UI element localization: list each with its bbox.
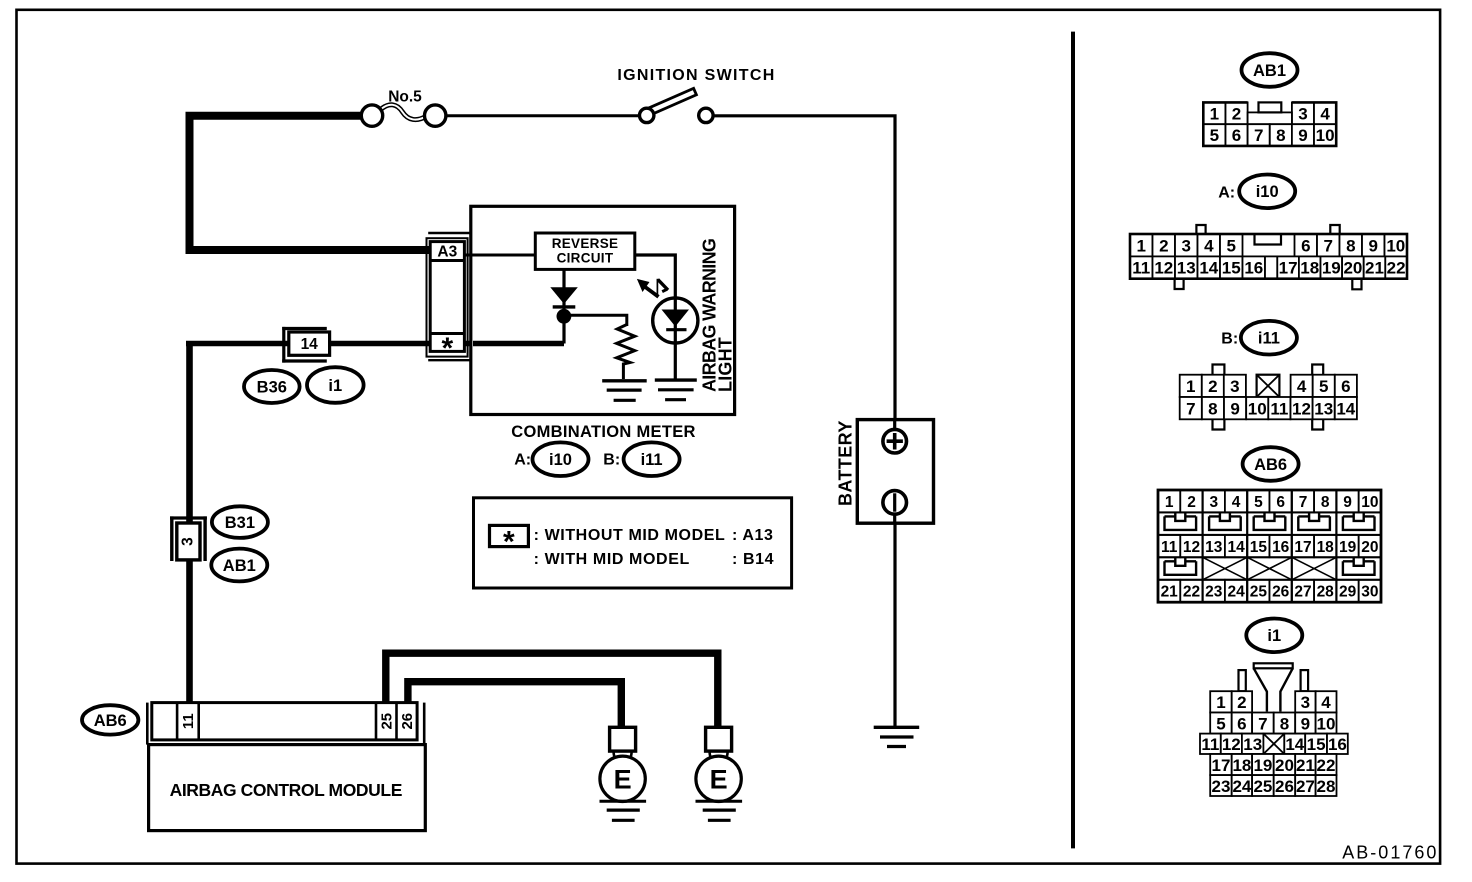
i10 keyway notch <box>1255 234 1282 245</box>
svg-text:17: 17 <box>1294 539 1311 556</box>
wire: module pin 25 to lamp 2 <box>386 653 718 728</box>
svg-text:14: 14 <box>301 336 319 353</box>
combination meter box <box>471 206 735 414</box>
pin 4 <box>1225 490 1247 512</box>
svg-text:11: 11 <box>1132 259 1150 278</box>
svg-text:7: 7 <box>1258 714 1267 733</box>
svg-text:8: 8 <box>1280 714 1289 733</box>
svg-text:6: 6 <box>1301 236 1310 255</box>
i1 keyway funnel <box>1254 663 1293 668</box>
svg-text:3: 3 <box>1181 236 1190 255</box>
svg-text:18: 18 <box>1300 259 1319 278</box>
svg-text:9: 9 <box>1298 126 1307 145</box>
svg-text:16: 16 <box>1328 735 1347 754</box>
pin 9 <box>1224 397 1246 419</box>
pin 15 <box>1220 256 1243 278</box>
i11 bottom tabs <box>1213 419 1225 429</box>
svg-text:16: 16 <box>1272 539 1290 556</box>
svg-text:12: 12 <box>1183 539 1200 556</box>
pin 26 <box>1270 580 1292 602</box>
pin 6 <box>1295 234 1318 256</box>
svg-text:25: 25 <box>1253 777 1272 796</box>
svg-text:2: 2 <box>1187 494 1196 511</box>
pin 11 <box>1158 535 1180 557</box>
svg-text:B:: B: <box>603 452 620 469</box>
pin 1 <box>1210 691 1232 712</box>
pin 4 <box>1291 375 1313 397</box>
pin 16 <box>1327 734 1348 754</box>
pin 20 <box>1359 535 1381 557</box>
pin 6 <box>1232 713 1252 734</box>
svg-text:14: 14 <box>1285 735 1304 754</box>
pin 1 <box>1158 490 1180 512</box>
svg-text:11: 11 <box>1270 399 1288 418</box>
svg-text:2: 2 <box>1237 693 1246 712</box>
svg-text:1: 1 <box>1165 494 1174 511</box>
svg-text:21: 21 <box>1365 259 1384 278</box>
pin 7 <box>1292 490 1314 512</box>
pin 3 <box>1292 102 1314 124</box>
lamp E2 connector <box>706 727 732 751</box>
pin 2 <box>1153 234 1176 256</box>
pin 7 <box>1248 124 1270 146</box>
pin 22 <box>1385 256 1407 278</box>
pin 27 <box>1295 775 1315 796</box>
svg-text:21: 21 <box>1296 756 1315 775</box>
svg-text:3: 3 <box>1301 693 1310 712</box>
AB6 cavity row 1 <box>1165 512 1197 530</box>
pin 10 <box>1385 234 1408 256</box>
pin 5 <box>1203 124 1225 146</box>
svg-text:30: 30 <box>1361 584 1378 601</box>
pin 14 box <box>289 332 330 355</box>
pin 2 <box>1202 375 1224 397</box>
svg-text:20: 20 <box>1275 756 1294 775</box>
pin 14 <box>1335 397 1357 419</box>
pin 24 <box>1232 775 1252 796</box>
svg-text:21: 21 <box>1161 584 1179 601</box>
pin 16 <box>1243 256 1266 278</box>
pin 7 <box>1252 713 1274 734</box>
svg-text:AIRBAG CONTROL MODULE: AIRBAG CONTROL MODULE <box>170 780 402 800</box>
pin 29 <box>1336 580 1358 602</box>
pin 12 <box>1221 734 1242 754</box>
svg-text:i10: i10 <box>549 451 572 469</box>
svg-text:10: 10 <box>1361 494 1378 511</box>
pin 17 <box>1292 535 1314 557</box>
pin 14 <box>1225 535 1247 557</box>
svg-text:14: 14 <box>1227 539 1245 556</box>
lamp E2 bulb <box>710 751 714 760</box>
pin 15 <box>1247 535 1269 557</box>
svg-text:i1: i1 <box>1267 627 1281 645</box>
i11 top tabs <box>1213 365 1225 375</box>
svg-text:10: 10 <box>1386 236 1405 255</box>
svg-text:E: E <box>614 765 632 795</box>
ground (battery) <box>874 726 920 729</box>
svg-text:11: 11 <box>1161 539 1178 556</box>
svg-text:17: 17 <box>1212 756 1231 775</box>
svg-text:10: 10 <box>1317 714 1336 733</box>
pin 10 <box>1359 490 1381 512</box>
pin 9 <box>1292 124 1314 146</box>
wire: reverse circuit to LED top <box>634 255 675 380</box>
svg-text:A3: A3 <box>437 244 457 261</box>
pin 21 <box>1364 256 1386 278</box>
pin 12 <box>1153 256 1176 278</box>
reverse circuit box U1 <box>535 233 635 269</box>
AB6 cavity/X row 2 <box>1165 557 1197 575</box>
svg-text:1: 1 <box>1216 693 1225 712</box>
pin 24 <box>1225 580 1247 602</box>
svg-text:2: 2 <box>1159 236 1168 255</box>
svg-text:B36: B36 <box>257 378 287 396</box>
svg-text:4: 4 <box>1321 693 1331 712</box>
svg-text:AB-01760: AB-01760 <box>1342 843 1438 863</box>
pin 7 <box>1317 234 1340 256</box>
svg-text:i11: i11 <box>641 451 663 469</box>
svg-text:i10: i10 <box>1256 183 1279 201</box>
wire: * pin row inside meter <box>473 341 564 347</box>
pin 19 <box>1252 754 1274 775</box>
svg-text:10: 10 <box>1248 399 1267 418</box>
pin 10 <box>1316 713 1337 734</box>
svg-text:BATTERY: BATTERY <box>836 420 856 506</box>
connector oval i1 (pinout) <box>1246 619 1302 653</box>
svg-text:25: 25 <box>1250 584 1268 601</box>
i10 bottom tabs <box>1175 279 1184 289</box>
svg-text:1: 1 <box>1136 236 1145 255</box>
svg-text:8: 8 <box>1276 126 1285 145</box>
pin 11 <box>1268 397 1290 419</box>
pin 2 <box>1232 691 1252 712</box>
pin 21 <box>1295 754 1315 775</box>
svg-text:25: 25 <box>378 713 395 730</box>
i10 top tabs <box>1196 225 1205 234</box>
svg-text:2: 2 <box>1208 377 1217 396</box>
ground (lamp E1) <box>600 800 647 803</box>
svg-text:27: 27 <box>1296 777 1315 796</box>
battery + terminal <box>883 429 907 453</box>
connector A3/* on meter edge <box>428 232 470 234</box>
pin 2 <box>1226 102 1248 124</box>
svg-text:18: 18 <box>1317 539 1335 556</box>
pin 3 <box>1203 490 1225 512</box>
pin 3 <box>1175 234 1198 256</box>
svg-text:LIGHT: LIGHT <box>716 337 736 392</box>
svg-text:5: 5 <box>1210 126 1219 145</box>
pin 13 <box>1203 535 1225 557</box>
svg-text:*: * <box>503 526 515 559</box>
pin 3 <box>1295 691 1315 712</box>
connector 14 bracket <box>282 327 285 363</box>
pin 1 <box>1180 375 1202 397</box>
connector oval AB6 (left) <box>82 705 138 734</box>
pin 28 <box>1314 580 1336 602</box>
svg-text:1: 1 <box>1210 105 1219 124</box>
svg-text:B:: B: <box>1221 331 1238 348</box>
svg-text:AB6: AB6 <box>1254 456 1287 474</box>
svg-text:29: 29 <box>1339 584 1357 601</box>
pin 9 <box>1336 490 1358 512</box>
lamp E1 bulb <box>614 751 618 760</box>
pin 3 box <box>177 523 200 560</box>
pin 8 <box>1270 124 1292 146</box>
pin 14 <box>1284 734 1305 754</box>
airbag control module box <box>149 745 426 831</box>
blank cell <box>1248 112 1292 124</box>
pin 6 <box>1335 375 1357 397</box>
pin 8 <box>1274 713 1296 734</box>
svg-text:6: 6 <box>1232 126 1241 145</box>
svg-text:3: 3 <box>180 537 197 546</box>
pin 8 <box>1202 397 1224 419</box>
diode D1 <box>550 287 578 304</box>
svg-text:3: 3 <box>1298 105 1307 124</box>
svg-text:i1: i1 <box>328 377 342 395</box>
svg-text:4: 4 <box>1204 236 1214 255</box>
wire: battery negative to ground <box>893 523 896 727</box>
connector 3 bracket <box>170 516 173 561</box>
pin 4 <box>1314 102 1336 124</box>
ground (lamp E2) <box>696 800 743 803</box>
pin 8 <box>1340 234 1363 256</box>
pin 13 <box>1313 397 1335 419</box>
pin 11 <box>1130 256 1153 278</box>
blank cell <box>1263 734 1284 754</box>
battery - terminal <box>883 491 907 515</box>
svg-text:19: 19 <box>1339 539 1357 556</box>
svg-text:19: 19 <box>1253 756 1272 775</box>
svg-text:AB6: AB6 <box>94 712 127 730</box>
svg-text:A:: A: <box>514 452 531 469</box>
svg-text:19: 19 <box>1322 259 1341 278</box>
battery <box>857 420 933 524</box>
pin 5 <box>1220 234 1243 256</box>
wire: reverse circuit to diode to junction <box>562 268 565 316</box>
svg-text:: B14: : B14 <box>732 551 774 568</box>
svg-text:IGNITION SWITCH: IGNITION SWITCH <box>617 67 775 84</box>
pin 26 <box>1274 775 1296 796</box>
svg-text:28: 28 <box>1317 777 1336 796</box>
svg-text:26: 26 <box>1272 584 1290 601</box>
svg-text:4: 4 <box>1232 494 1241 511</box>
svg-text:16: 16 <box>1244 259 1263 278</box>
svg-text:*: * <box>441 332 453 365</box>
pin 27 <box>1292 580 1314 602</box>
wire: junction to resistor <box>564 315 627 326</box>
connector oval AB1 (pinout) <box>1242 53 1298 87</box>
svg-text:9: 9 <box>1230 399 1239 418</box>
svg-text:12: 12 <box>1154 259 1173 278</box>
svg-text:20: 20 <box>1361 539 1378 556</box>
svg-text:27: 27 <box>1294 584 1311 601</box>
pin 21 <box>1158 580 1180 602</box>
pin 6 <box>1270 490 1292 512</box>
svg-text:i11: i11 <box>1258 330 1280 348</box>
svg-text:3: 3 <box>1209 494 1218 511</box>
pin 10 <box>1314 124 1336 146</box>
wire: vertical to airbag module pin 11 <box>186 344 193 705</box>
svg-text:6: 6 <box>1237 714 1246 733</box>
svg-text:11: 11 <box>1201 735 1219 754</box>
pin 9 <box>1362 234 1385 256</box>
svg-text:: WITHOUT MID MODEL: : WITHOUT MID MODEL <box>534 527 726 544</box>
svg-text:E: E <box>710 765 728 795</box>
svg-text:AB1: AB1 <box>223 557 256 575</box>
LED arrows <box>637 279 650 292</box>
svg-text:13: 13 <box>1314 399 1333 418</box>
svg-text:14: 14 <box>1336 399 1355 418</box>
pin 16 <box>1270 535 1292 557</box>
svg-text:REVERSE: REVERSE <box>552 236 619 251</box>
pin 12 <box>1291 397 1313 419</box>
svg-text:1: 1 <box>1186 377 1195 396</box>
blank cell <box>1265 256 1277 278</box>
pin 17 <box>1277 256 1299 278</box>
svg-text:5: 5 <box>1319 377 1328 396</box>
pin 22 <box>1316 754 1337 775</box>
svg-text:18: 18 <box>1232 756 1251 775</box>
svg-text:20: 20 <box>1343 259 1362 278</box>
svg-text:9: 9 <box>1301 714 1310 733</box>
svg-text:COMBINATION METER: COMBINATION METER <box>511 423 695 441</box>
pin 18 <box>1299 256 1321 278</box>
pin 22 <box>1180 580 1202 602</box>
pin 19 <box>1336 535 1358 557</box>
svg-text:24: 24 <box>1227 584 1245 601</box>
svg-text:11: 11 <box>180 713 197 729</box>
svg-text:6: 6 <box>1341 377 1350 396</box>
pin 25 <box>1252 775 1274 796</box>
pin 20 <box>1342 256 1364 278</box>
svg-text:15: 15 <box>1250 539 1268 556</box>
svg-text:13: 13 <box>1205 539 1223 556</box>
svg-text:22: 22 <box>1317 756 1336 775</box>
connector oval i1 (left) <box>307 367 364 403</box>
svg-text:15: 15 <box>1222 259 1241 278</box>
svg-text:: A13: : A13 <box>732 527 774 544</box>
pin 13 <box>1175 256 1198 278</box>
pin 3 <box>1224 375 1246 397</box>
pin 23 <box>1210 775 1232 796</box>
svg-text:AB1: AB1 <box>1253 62 1286 80</box>
airbag warning light LED <box>653 298 698 343</box>
svg-text:8: 8 <box>1346 236 1355 255</box>
pin 4 <box>1198 234 1221 256</box>
connector oval B36 <box>244 370 300 403</box>
legend * symbol box <box>490 525 529 546</box>
svg-text:28: 28 <box>1317 584 1335 601</box>
svg-text:9: 9 <box>1343 494 1352 511</box>
pin 11 <box>1200 734 1221 754</box>
pin 7 <box>1180 397 1202 419</box>
svg-text:A:: A: <box>1218 185 1235 202</box>
svg-text:13: 13 <box>1177 259 1196 278</box>
svg-text:26: 26 <box>1275 777 1294 796</box>
wire: ignition switch to battery <box>713 116 896 420</box>
svg-text:17: 17 <box>1279 259 1298 278</box>
wire: pin 14 row (connector 14 to A3 *) <box>186 341 564 347</box>
svg-text:14: 14 <box>1199 259 1218 278</box>
connector oval B31 <box>212 506 268 538</box>
pin 6 <box>1226 124 1248 146</box>
pin 14 <box>1198 256 1221 278</box>
svg-text:22: 22 <box>1183 584 1200 601</box>
svg-text:2: 2 <box>1232 105 1241 124</box>
legend box <box>474 498 792 588</box>
i1 blocked cavity X <box>1263 734 1284 754</box>
svg-text:5: 5 <box>1216 714 1225 733</box>
svg-text:10: 10 <box>1316 126 1335 145</box>
wire: A3 to reverse circuit <box>464 254 536 257</box>
resistor R1 <box>617 325 635 380</box>
svg-text:7: 7 <box>1299 494 1308 511</box>
pin 19 <box>1321 256 1343 278</box>
pin 10 <box>1246 397 1268 419</box>
ground (LED) <box>655 378 697 381</box>
wire: battery feed to fuse and A3 (thick) <box>190 116 432 250</box>
divider line <box>1071 32 1075 849</box>
pin 13 <box>1242 734 1264 754</box>
pin 15 <box>1305 734 1327 754</box>
blank cell <box>1257 375 1280 397</box>
pin 30 <box>1359 580 1381 602</box>
svg-text:12: 12 <box>1292 399 1311 418</box>
pin 5 <box>1313 375 1335 397</box>
svg-text:CIRCUIT: CIRCUIT <box>557 251 614 266</box>
svg-text:5: 5 <box>1226 236 1235 255</box>
pin 4 <box>1316 691 1337 712</box>
svg-text:23: 23 <box>1212 777 1231 796</box>
i1 top pins <box>1239 670 1246 691</box>
AB1 keyway tab <box>1259 102 1282 112</box>
svg-text:22: 22 <box>1387 259 1406 278</box>
svg-text:8: 8 <box>1321 494 1330 511</box>
svg-text:24: 24 <box>1232 777 1251 796</box>
pin 25 <box>1247 580 1269 602</box>
pin 2 <box>1180 490 1202 512</box>
wire: fuse to ignition switch <box>445 114 641 117</box>
svg-text:7: 7 <box>1186 399 1195 418</box>
pin 17 <box>1210 754 1232 775</box>
svg-text:5: 5 <box>1254 494 1263 511</box>
svg-text:: WITH MID MODEL: : WITH MID MODEL <box>534 551 690 568</box>
AB6 group separators <box>1201 490 1203 602</box>
lamp E1 connector <box>610 727 636 751</box>
pin 18 <box>1232 754 1252 775</box>
svg-text:4: 4 <box>1297 377 1307 396</box>
svg-text:6: 6 <box>1276 494 1285 511</box>
connector oval i11 (meter B) <box>624 442 680 476</box>
pin 12 <box>1180 535 1202 557</box>
svg-text:9: 9 <box>1368 236 1377 255</box>
airbag control module connector strip <box>146 703 149 745</box>
svg-text:15: 15 <box>1307 735 1326 754</box>
pin 5 <box>1247 490 1269 512</box>
pin 18 <box>1314 535 1336 557</box>
connector oval i11 (pinout) <box>1241 321 1297 355</box>
pin 1 <box>1130 234 1153 256</box>
wire: module pin 26 to lamp 1 <box>408 682 621 728</box>
connector oval i10 (pinout) <box>1239 175 1295 209</box>
svg-text:12: 12 <box>1222 735 1241 754</box>
svg-text:7: 7 <box>1323 236 1332 255</box>
svg-text:13: 13 <box>1243 735 1262 754</box>
pin 5 <box>1210 713 1232 734</box>
pin 20 <box>1274 754 1296 775</box>
pin 8 <box>1314 490 1336 512</box>
